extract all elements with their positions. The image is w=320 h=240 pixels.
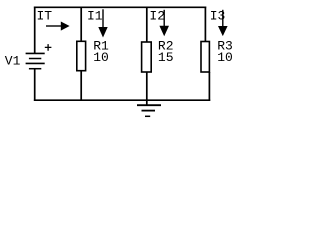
svg-text:10: 10 (93, 50, 109, 65)
ground stub (146, 100, 148, 105)
svg-text:IT: IT (37, 9, 53, 24)
battery V1 (26, 53, 45, 68)
arrow I2 (down) (159, 10, 169, 36)
svg-text:15: 15 (158, 50, 174, 65)
arrow I1 (down) (98, 9, 107, 37)
wire R3 branch lower (208, 72, 210, 101)
wire R1 branch lower (80, 71, 82, 101)
ground bar 2 (142, 110, 156, 112)
battery plate short (29, 58, 41, 60)
ground (137, 100, 161, 116)
svg-text:V1: V1 (5, 53, 21, 68)
wire R3 branch upper (204, 7, 206, 42)
svg-text:I3: I3 (210, 9, 226, 24)
ground bar 3 (145, 115, 150, 117)
wire R2 branch lower (146, 72, 148, 100)
battery plate long top (26, 52, 45, 54)
wire R2 branch upper (146, 7, 148, 43)
wire top rail (34, 6, 206, 8)
resistor R3 box (201, 42, 209, 73)
wire left rail upper (V1 to top rail) (34, 7, 36, 54)
svg-text:I1: I1 (87, 9, 103, 24)
battery plus sign (45, 44, 52, 51)
svg-text:10: 10 (217, 50, 233, 65)
wire bottom rail (34, 99, 210, 101)
resistor R2 box (142, 42, 152, 72)
svg-text:I2: I2 (149, 9, 165, 24)
battery plate short bottom (29, 68, 41, 70)
wire R1 branch upper (80, 7, 82, 42)
resistor R1 box (77, 41, 86, 70)
wire left rail lower (V1 to bottom rail) (34, 69, 36, 101)
arrow I3 (down) (218, 10, 228, 36)
ground bar 1 (137, 104, 161, 106)
battery plate long (26, 62, 45, 64)
arrow IT (right) (46, 22, 70, 31)
